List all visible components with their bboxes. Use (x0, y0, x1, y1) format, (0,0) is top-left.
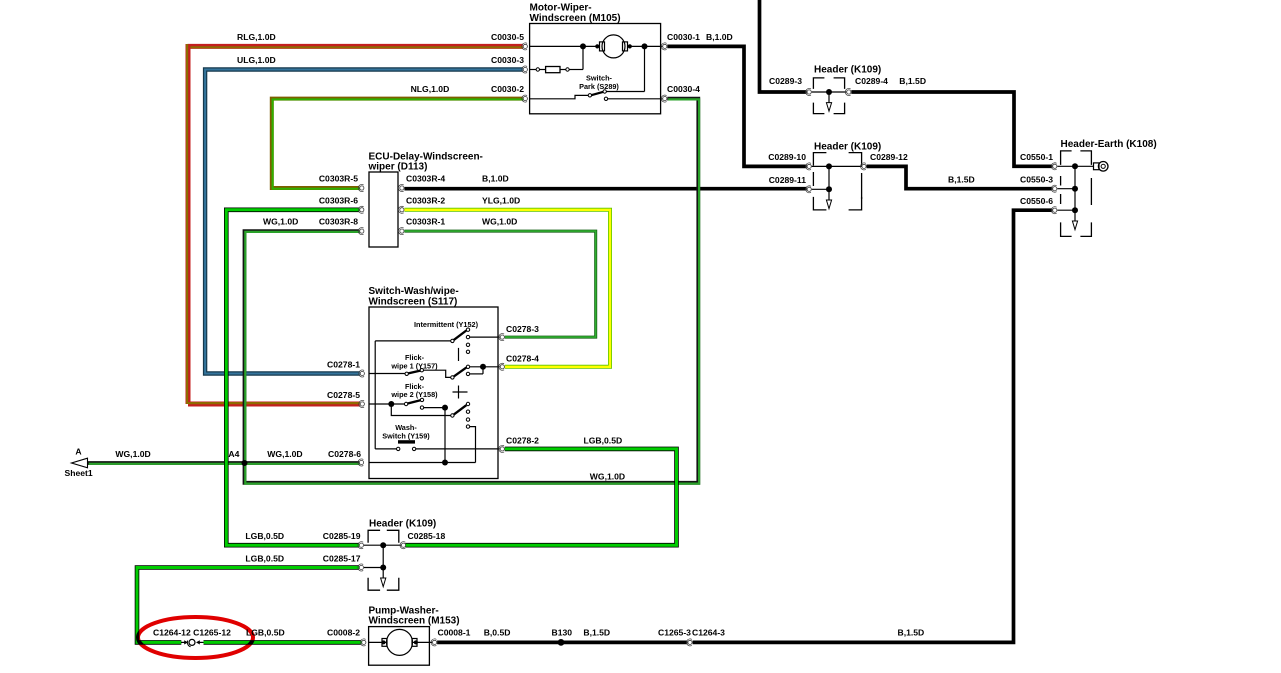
svg-text:B,1.5D: B,1.5D (899, 76, 926, 86)
svg-text:WG,1.0D: WG,1.0D (267, 449, 302, 459)
svg-text:C0303R-5: C0303R-5 (319, 174, 358, 184)
svg-text:C0303R-8: C0303R-8 (319, 217, 358, 227)
svg-text:C0289-11: C0289-11 (769, 175, 806, 185)
svg-text:WG,1.0D: WG,1.0D (263, 217, 298, 227)
svg-text:Sheet1: Sheet1 (65, 468, 93, 478)
svg-text:C0030-3: C0030-3 (491, 55, 524, 65)
svg-text:Windscreen (M153): Windscreen (M153) (369, 616, 460, 627)
svg-text:A4: A4 (228, 449, 239, 459)
svg-text:C0285-18: C0285-18 (408, 531, 446, 541)
svg-text:B,1.5D: B,1.5D (948, 175, 975, 185)
svg-text:ULG,1.0D: ULG,1.0D (237, 55, 276, 65)
svg-text:C0550-3: C0550-3 (1020, 175, 1053, 185)
svg-text:WG,1.0D: WG,1.0D (482, 217, 517, 227)
svg-text:C0285-17: C0285-17 (323, 554, 361, 564)
svg-text:RLG,1.0D: RLG,1.0D (237, 32, 276, 42)
svg-text:Windscreen (S117): Windscreen (S117) (369, 297, 458, 308)
svg-text:wipe 2 (Y158): wipe 2 (Y158) (390, 390, 438, 399)
svg-text:C0030-2: C0030-2 (491, 84, 524, 94)
svg-text:C0289-3: C0289-3 (769, 76, 802, 86)
svg-text:Flick-: Flick- (405, 353, 425, 362)
svg-text:Header (K109): Header (K109) (814, 142, 881, 153)
svg-text:C0278-3: C0278-3 (506, 324, 539, 334)
svg-text:B,1.5D: B,1.5D (898, 628, 925, 638)
svg-text:C0303R-2: C0303R-2 (406, 195, 445, 205)
svg-text:Switch-Wash/wipe-: Switch-Wash/wipe- (369, 286, 459, 297)
svg-text:wiper (D113): wiper (D113) (368, 162, 428, 173)
svg-text:LGB,0.5D: LGB,0.5D (584, 435, 623, 445)
svg-text:Header-Earth (K108): Header-Earth (K108) (1061, 139, 1157, 150)
svg-text:C0289-10: C0289-10 (768, 152, 806, 162)
svg-text:C0289-12: C0289-12 (870, 152, 908, 162)
svg-text:LGB,0.5D: LGB,0.5D (245, 554, 284, 564)
svg-text:C0278-1: C0278-1 (327, 360, 360, 370)
svg-text:C0278-5: C0278-5 (327, 390, 360, 400)
svg-text:C0030-1: C0030-1 (667, 32, 700, 42)
svg-text:B,1.5D: B,1.5D (583, 628, 610, 638)
svg-text:C0278-2: C0278-2 (506, 435, 539, 445)
svg-text:C0303R-4: C0303R-4 (406, 174, 445, 184)
svg-text:C1264-12 C1265-12: C1264-12 C1265-12 (153, 628, 231, 638)
svg-text:C0030-4: C0030-4 (667, 84, 700, 94)
svg-text:A: A (75, 447, 81, 457)
svg-text:Header (K109): Header (K109) (814, 65, 881, 76)
svg-text:YLG,1.0D: YLG,1.0D (482, 195, 520, 205)
svg-text:C0278-6: C0278-6 (328, 449, 361, 459)
svg-text:C0303R-1: C0303R-1 (406, 217, 445, 227)
svg-text:wipe 1 (Y157): wipe 1 (Y157) (390, 362, 438, 371)
svg-text:C1265-3: C1265-3 (658, 628, 691, 638)
svg-text:Windscreen (M105): Windscreen (M105) (530, 13, 621, 24)
svg-text:Motor-Wiper-: Motor-Wiper- (530, 3, 592, 14)
svg-text:Switch (Y159): Switch (Y159) (382, 431, 430, 440)
svg-text:C1264-3: C1264-3 (692, 628, 725, 638)
svg-text:C0550-1: C0550-1 (1020, 152, 1053, 162)
svg-text:C0008-2: C0008-2 (327, 628, 360, 638)
svg-text:B,0.5D: B,0.5D (484, 628, 511, 638)
svg-text:C0550-6: C0550-6 (1020, 196, 1053, 206)
svg-text:B,1.0D: B,1.0D (482, 174, 509, 184)
svg-text:C0278-4: C0278-4 (506, 353, 539, 363)
svg-text:Park (S289): Park (S289) (579, 82, 619, 91)
svg-text:NLG,1.0D: NLG,1.0D (411, 84, 450, 94)
svg-text:C0289-4: C0289-4 (855, 76, 888, 86)
svg-text:B,1.0D: B,1.0D (706, 32, 733, 42)
svg-text:Header (K109): Header (K109) (369, 519, 436, 530)
svg-text:C0285-19: C0285-19 (323, 531, 361, 541)
svg-text:WG,1.0D: WG,1.0D (115, 449, 150, 459)
svg-text:C0008-1: C0008-1 (438, 628, 471, 638)
svg-text:WG,1.0D: WG,1.0D (590, 471, 625, 481)
svg-text:LGB,0.5D: LGB,0.5D (246, 628, 285, 638)
svg-text:LGB,0.5D: LGB,0.5D (245, 531, 284, 541)
svg-text:Intermittent (Y152): Intermittent (Y152) (414, 320, 479, 329)
svg-text:C0303R-6: C0303R-6 (319, 195, 358, 205)
svg-text:B130: B130 (552, 628, 573, 638)
svg-text:C0030-5: C0030-5 (491, 32, 524, 42)
